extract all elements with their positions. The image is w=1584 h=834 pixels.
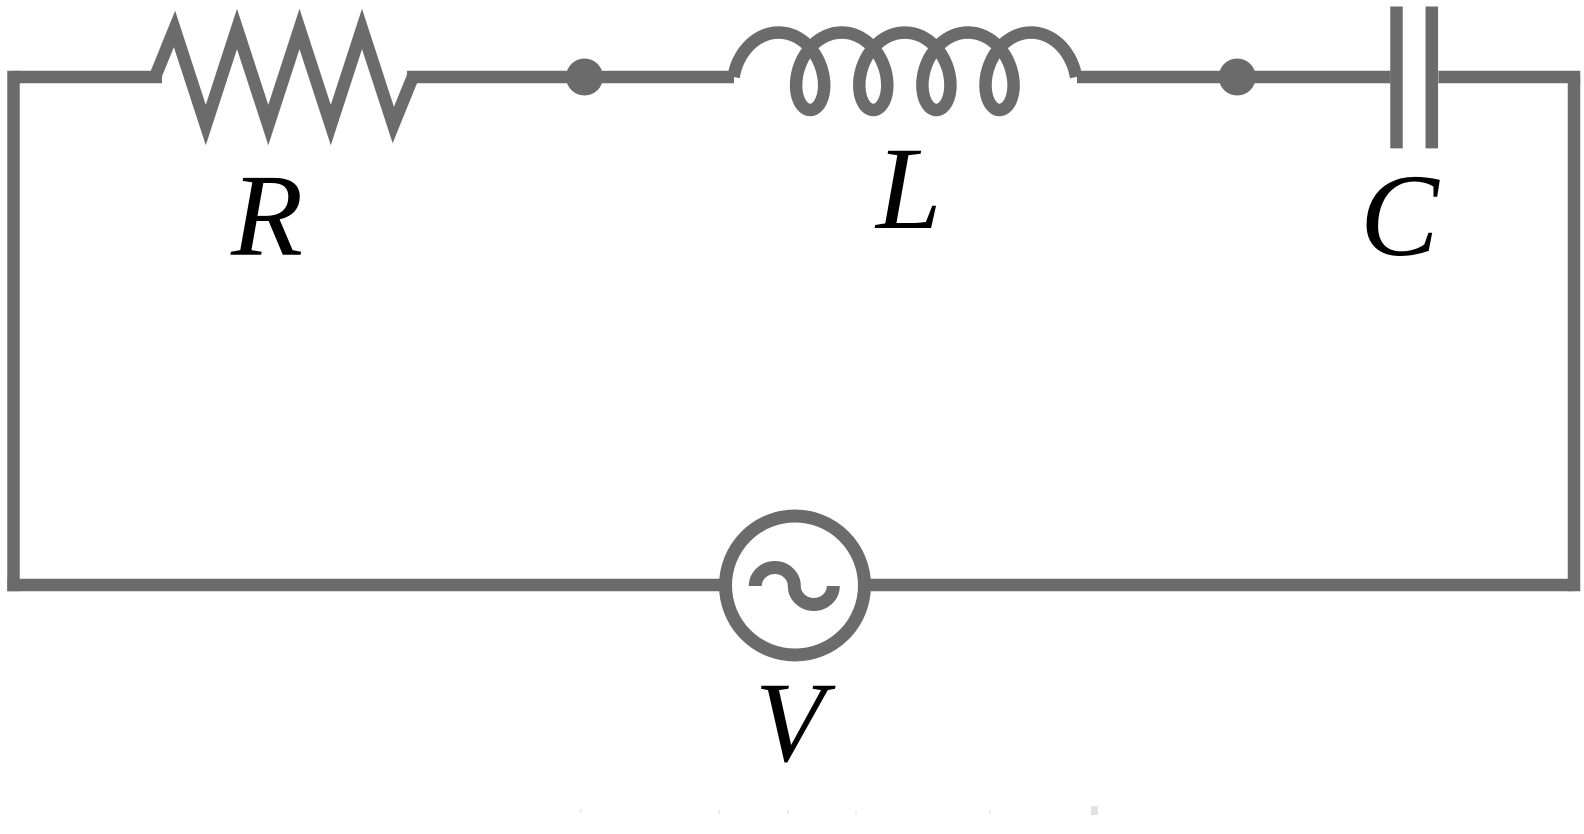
wire bottom-right segment (864, 579, 1574, 592)
faint bottom artifacts (580, 809, 582, 813)
wire left vertical (7, 71, 20, 592)
capacitor C left plate (1390, 7, 1403, 149)
wire resistor-to-inductor segment (407, 71, 734, 84)
inductor L coil (734, 33, 1077, 111)
label V (755, 666, 825, 780)
wire top-left segment (14, 71, 163, 84)
label L (876, 130, 942, 248)
AC source V circle (726, 516, 865, 655)
wire top-right segment (capacitor to corner) (1438, 71, 1580, 84)
capacitor C right plate (1426, 7, 1439, 149)
resistor R zigzag (155, 29, 413, 125)
node dot 2 (1219, 59, 1256, 96)
wire right vertical (1568, 77, 1581, 591)
wire bottom-left segment (7, 579, 726, 592)
AC source sine wave (755, 568, 833, 605)
node dot 1 (566, 59, 603, 96)
label C (1360, 157, 1439, 275)
label R (231, 157, 303, 275)
wire inductor-to-capacitor segment (1077, 71, 1390, 84)
